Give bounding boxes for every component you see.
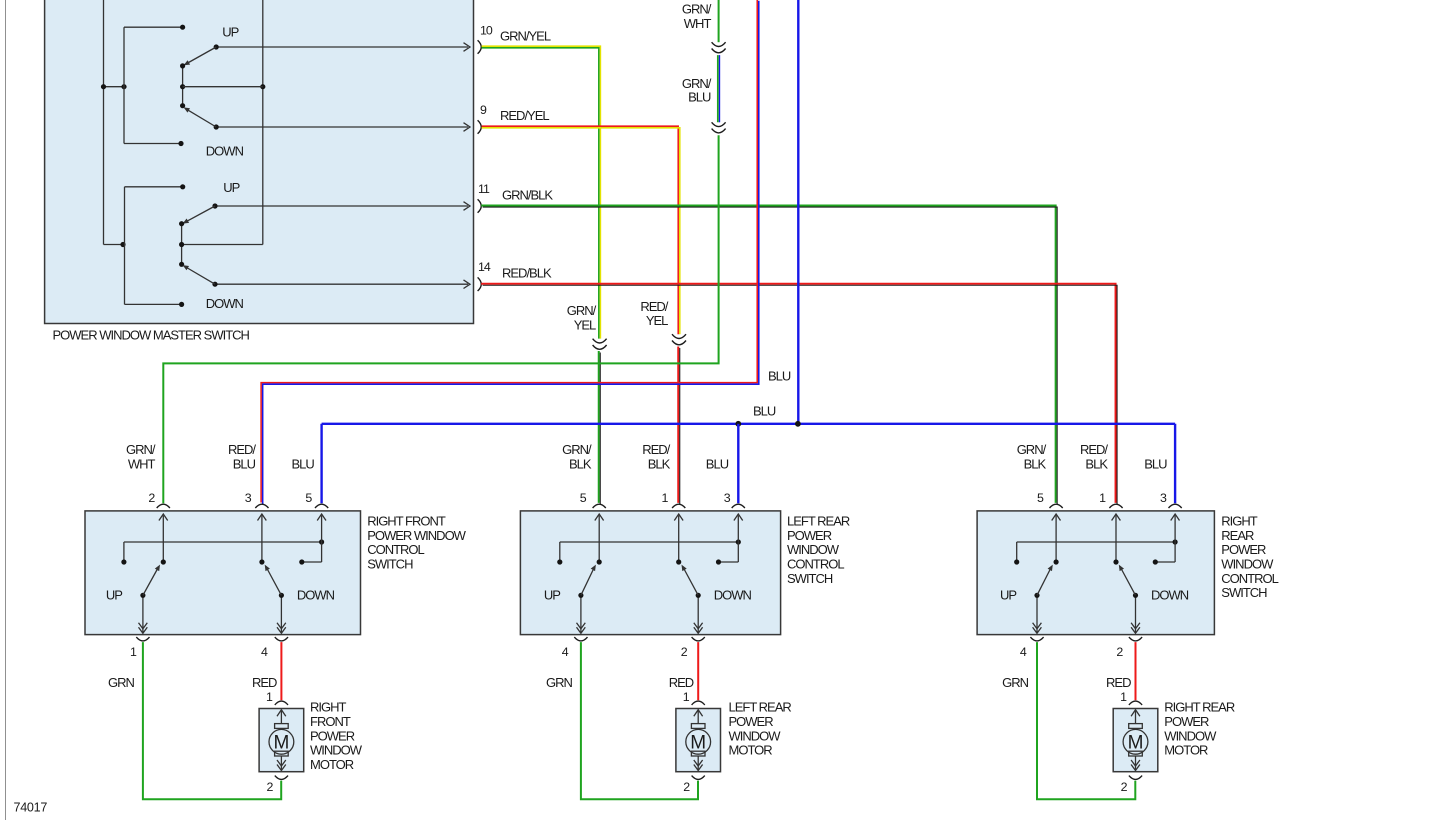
svg-text:BLK: BLK — [648, 456, 671, 471]
svg-text:POWER: POWER — [1164, 714, 1209, 729]
left rear switch UP contact arm — [544, 514, 604, 633]
svg-text:BLU: BLU — [292, 456, 315, 471]
svg-text:WINDOW: WINDOW — [729, 728, 782, 743]
wire GRN/WHT from top — [682, 0, 719, 42]
svg-text:BLK: BLK — [569, 456, 592, 471]
master switch: front window UP/DOWN rocker — [124, 24, 470, 158]
wire GRN/WHT to right front switch pin 2 — [163, 135, 718, 503]
right front switch pin 1 connector — [130, 637, 150, 659]
svg-text:WINDOW: WINDOW — [1164, 728, 1217, 743]
left rear switch common contact — [716, 514, 743, 565]
svg-text:BLK: BLK — [1085, 456, 1108, 471]
svg-text:1: 1 — [661, 491, 668, 505]
master switch left supply bus wire — [101, 0, 127, 247]
svg-text:GRN/: GRN/ — [1017, 442, 1047, 457]
svg-text:SWITCH: SWITCH — [1221, 585, 1267, 600]
svg-text:GRN/: GRN/ — [126, 442, 156, 457]
svg-text:1: 1 — [1099, 491, 1106, 505]
master switch pin 14 — [478, 260, 491, 291]
inline connector on GRN/YEL wire — [567, 303, 607, 349]
svg-text:WHT: WHT — [128, 456, 156, 471]
svg-text:1: 1 — [1120, 690, 1127, 704]
svg-text:RIGHT REAR: RIGHT REAR — [1164, 700, 1235, 715]
svg-text:RED/: RED/ — [640, 299, 668, 314]
left rear switch pin 2 connector — [681, 637, 705, 659]
inline connector on RED/YEL wire — [640, 299, 686, 345]
wire GRN right front motor return to switch — [108, 642, 281, 799]
svg-text:DOWN: DOWN — [714, 587, 752, 602]
right rear switch internal bus — [1014, 539, 1178, 564]
svg-text:11: 11 — [478, 182, 490, 196]
right rear switch pin 3 connector — [1144, 456, 1181, 508]
svg-text:M: M — [690, 733, 706, 754]
right front switch pin 4 connector — [261, 637, 288, 659]
svg-text:POWER: POWER — [1221, 542, 1266, 557]
svg-text:RED/BLK: RED/BLK — [502, 266, 552, 281]
master switch pin 9 — [478, 103, 487, 134]
wire RED/YEL from master pin 9 — [482, 108, 680, 334]
diagram number 74017 — [14, 800, 48, 814]
wire BLU to right rear switch pin 3 — [1174, 424, 1176, 504]
right rear power window control switch — [977, 511, 1279, 635]
right front switch pin 2 connector — [126, 442, 170, 508]
right front switch pin 5 connector — [292, 456, 329, 508]
svg-text:3: 3 — [245, 491, 252, 505]
svg-text:UP: UP — [106, 587, 122, 602]
inline connector GRN/WHT to GRN/BLU — [712, 42, 726, 53]
wire BLU to right front switch pin 5 — [320, 424, 322, 504]
svg-text:5: 5 — [1037, 491, 1044, 505]
svg-text:M: M — [273, 733, 289, 754]
svg-text:DOWN: DOWN — [1151, 587, 1189, 602]
svg-text:LEFT REAR: LEFT REAR — [729, 700, 792, 715]
svg-text:REAR: REAR — [1221, 528, 1254, 543]
svg-text:WINDOW: WINDOW — [1221, 557, 1274, 572]
svg-text:UP: UP — [1000, 587, 1016, 602]
svg-text:POWER: POWER — [729, 714, 774, 729]
svg-text:DOWN: DOWN — [206, 296, 244, 311]
svg-text:DOWN: DOWN — [297, 587, 335, 602]
svg-text:RIGHT: RIGHT — [1221, 514, 1258, 529]
svg-text:UP: UP — [222, 24, 238, 39]
left rear switch DOWN contact arm — [674, 514, 751, 633]
wire GRN right rear motor return to switch — [1002, 642, 1135, 799]
svg-text:2: 2 — [1121, 780, 1128, 794]
svg-text:GRN: GRN — [108, 675, 135, 690]
svg-text:CONTROL: CONTROL — [1221, 571, 1278, 586]
svg-text:YEL: YEL — [574, 318, 596, 333]
svg-text:GRN: GRN — [546, 675, 573, 690]
wire RED right rear switch to motor — [1106, 642, 1135, 700]
svg-text:M: M — [1128, 733, 1144, 754]
svg-text:GRN/: GRN/ — [567, 303, 597, 318]
svg-text:2: 2 — [1116, 645, 1123, 659]
svg-text:LEFT REAR: LEFT REAR — [787, 514, 850, 529]
left rear motor pin 2 connector — [683, 776, 705, 794]
wire GRN/BLK to left rear switch pin 5 — [599, 351, 601, 504]
svg-text:BLK: BLK — [1024, 456, 1047, 471]
svg-text:2: 2 — [683, 780, 690, 794]
svg-text:RIGHT FRONT: RIGHT FRONT — [367, 514, 446, 529]
svg-text:1: 1 — [683, 690, 690, 704]
left rear motor pin 1 connector — [683, 690, 705, 705]
wire GRN/BLU segment — [682, 55, 720, 122]
left rear switch pin 3 connector — [706, 456, 745, 508]
svg-text:5: 5 — [580, 491, 587, 505]
svg-text:WHT: WHT — [684, 16, 712, 31]
right rear motor pin 2 connector — [1121, 776, 1143, 794]
svg-text:RED: RED — [1106, 675, 1131, 690]
right front power window motor M — [259, 700, 363, 772]
right front motor pin 1 connector — [266, 690, 288, 705]
svg-text:RED/: RED/ — [1080, 442, 1108, 457]
right rear switch pin 1 connector — [1080, 442, 1123, 508]
svg-text:BLU: BLU — [1144, 456, 1167, 471]
svg-text:UP: UP — [544, 587, 560, 602]
svg-text:SWITCH: SWITCH — [367, 557, 413, 572]
left rear switch internal bus — [557, 539, 741, 564]
junction: BLU branch to left rear pin 3 — [735, 421, 741, 427]
right rear switch common contact — [1153, 514, 1180, 565]
svg-text:RED/: RED/ — [642, 442, 670, 457]
svg-text:RED/: RED/ — [228, 442, 256, 457]
svg-text:10: 10 — [480, 24, 493, 38]
left rear switch pin 1 connector — [642, 442, 685, 508]
svg-text:GRN/: GRN/ — [562, 442, 592, 457]
svg-text:GRN: GRN — [1002, 675, 1029, 690]
svg-text:POWER: POWER — [787, 528, 832, 543]
svg-text:BLU: BLU — [688, 89, 711, 104]
svg-text:2: 2 — [148, 491, 155, 505]
right rear motor pin 1 connector — [1120, 690, 1142, 705]
svg-text:POWER WINDOW MASTER SWITCH: POWER WINDOW MASTER SWITCH — [53, 328, 250, 343]
svg-text:GRN/: GRN/ — [682, 2, 712, 17]
svg-text:UP: UP — [223, 180, 239, 195]
svg-text:CONTROL: CONTROL — [367, 542, 424, 557]
svg-text:5: 5 — [305, 491, 312, 505]
svg-text:POWER WINDOW: POWER WINDOW — [367, 528, 466, 543]
left rear power window control switch — [520, 511, 849, 635]
right rear switch pin 4 connector — [1020, 637, 1044, 659]
right front switch DOWN contact arm — [258, 514, 335, 633]
svg-text:YEL: YEL — [646, 313, 668, 328]
svg-text:POWER: POWER — [310, 728, 355, 743]
right front switch internal bus — [121, 539, 324, 564]
inline connector GRN/BLU to GRN/WHT — [712, 122, 726, 133]
svg-text:3: 3 — [724, 491, 731, 505]
wire RED/BLK from master pin 14 to right rear switch pin 1 — [481, 266, 1117, 505]
svg-text:BLU: BLU — [753, 404, 776, 419]
master switch pin 11 — [478, 182, 490, 213]
svg-text:2: 2 — [266, 780, 273, 794]
right rear switch DOWN contact arm — [1112, 514, 1189, 633]
right front switch UP contact arm — [106, 514, 168, 633]
wire GRN/YEL from master pin 10 — [482, 28, 601, 338]
right front switch common contact — [299, 514, 326, 565]
right front motor pin 2 connector — [266, 776, 288, 794]
svg-text:WINDOW: WINDOW — [310, 743, 363, 758]
svg-text:DOWN: DOWN — [206, 144, 244, 159]
svg-text:RED/YEL: RED/YEL — [500, 108, 549, 123]
junction: BLU vertical to bus — [795, 421, 801, 427]
svg-text:MOTOR: MOTOR — [1164, 743, 1208, 758]
svg-text:RED: RED — [669, 675, 694, 690]
svg-text:4: 4 — [261, 645, 268, 659]
right rear power window motor M — [1113, 700, 1235, 772]
right rear switch UP contact arm — [1000, 514, 1061, 633]
svg-text:74017: 74017 — [14, 800, 48, 814]
right front switch pin 3 connector — [228, 442, 269, 508]
svg-text:RED: RED — [252, 675, 277, 690]
master switch right bus wire — [182, 0, 266, 245]
svg-text:4: 4 — [1020, 645, 1027, 659]
svg-text:9: 9 — [480, 103, 487, 117]
svg-text:1: 1 — [266, 690, 273, 704]
svg-text:2: 2 — [681, 645, 688, 659]
left rear switch pin 4 connector — [562, 637, 588, 659]
master switch: rear window UP/DOWN rocker — [125, 180, 471, 311]
power window master switch — [45, 0, 474, 343]
wire RED left rear switch to motor — [669, 642, 698, 700]
right front power window control switch — [85, 511, 467, 635]
svg-text:BLU: BLU — [233, 456, 256, 471]
svg-text:WINDOW: WINDOW — [787, 542, 840, 557]
left rear switch pin 5 connector — [562, 442, 606, 508]
wire BLU vertical from top — [768, 0, 798, 424]
wire RED right front switch to motor — [252, 642, 281, 700]
svg-text:RIGHT: RIGHT — [310, 700, 347, 715]
master switch pin 10 — [478, 24, 493, 54]
wire RED/BLU from top to right front switch pin 3 — [261, 0, 759, 504]
svg-text:14: 14 — [478, 260, 491, 274]
svg-text:3: 3 — [1160, 491, 1167, 505]
right rear switch pin 5 connector — [1017, 442, 1063, 508]
svg-text:CONTROL: CONTROL — [787, 557, 844, 572]
svg-text:FRONT: FRONT — [310, 714, 351, 729]
svg-text:MOTOR: MOTOR — [729, 743, 773, 758]
svg-text:SWITCH: SWITCH — [787, 571, 833, 586]
wire BLU to left rear switch pin 3 — [737, 424, 739, 504]
wire GRN/BLK from master pin 11 to right rear switch pin 5 — [481, 188, 1057, 505]
right rear switch pin 2 connector — [1116, 637, 1142, 659]
svg-text:4: 4 — [562, 645, 569, 659]
wire BLU horizontal bus — [322, 404, 1176, 424]
wire RED/BLK to left rear switch pin 1 — [678, 347, 680, 505]
svg-text:GRN/YEL: GRN/YEL — [500, 28, 551, 43]
svg-text:BLU: BLU — [768, 368, 791, 383]
wire GRN left rear motor return to switch — [546, 642, 698, 799]
svg-text:MOTOR: MOTOR — [310, 757, 354, 772]
svg-text:GRN/BLK: GRN/BLK — [502, 188, 553, 203]
svg-text:BLU: BLU — [706, 456, 729, 471]
left rear power window motor M — [676, 700, 791, 772]
svg-text:1: 1 — [130, 645, 137, 659]
